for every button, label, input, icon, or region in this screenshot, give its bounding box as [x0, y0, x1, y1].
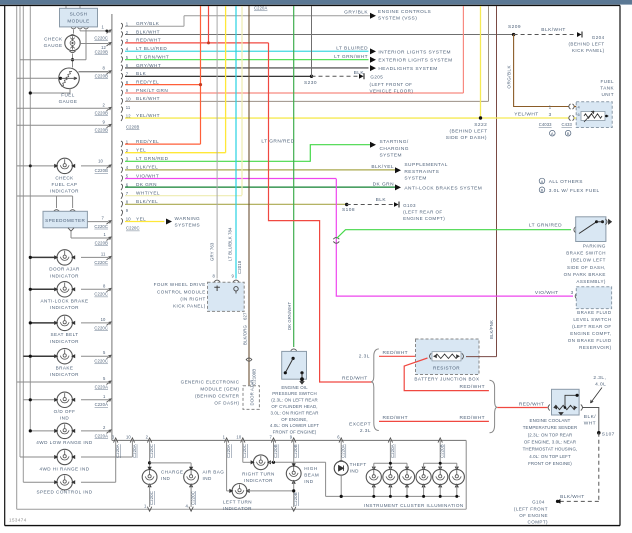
svg-text:UNIT: UNIT — [601, 92, 614, 97]
svg-text:VEHICLE FLOOR): VEHICLE FLOOR) — [370, 89, 414, 94]
svg-text:IND: IND — [161, 476, 170, 481]
svg-text:4WD LOW RANGE IND: 4WD LOW RANGE IND — [36, 440, 93, 445]
svg-text:C220A: C220A — [390, 444, 395, 458]
svg-text:10: 10 — [98, 159, 103, 164]
svg-text:10: 10 — [101, 317, 106, 322]
svg-text:C220A: C220A — [115, 444, 120, 458]
svg-text:INDICATOR: INDICATOR — [223, 506, 252, 511]
svg-text:3: 3 — [571, 290, 574, 295]
svg-text:C220B: C220B — [95, 168, 108, 173]
svg-text:WHT/YEL: WHT/YEL — [136, 191, 160, 196]
svg-text:4.0L: ON LOWER LEFT: 4.0L: ON LOWER LEFT — [270, 423, 319, 428]
svg-text:ORG/BLK: ORG/BLK — [507, 65, 512, 89]
svg-text:IND: IND — [203, 476, 212, 481]
svg-text:11: 11 — [126, 105, 131, 110]
svg-text:SPEEDOMETER: SPEEDOMETER — [45, 218, 85, 223]
svg-text:LT GRN/RED: LT GRN/RED — [261, 139, 294, 145]
svg-text:CONTROL MODULE: CONTROL MODULE — [157, 289, 206, 294]
svg-text:INSTRUMENT CLUSTER ILLUMINATIO: INSTRUMENT CLUSTER ILLUMINATION — [364, 503, 464, 508]
svg-text:153474: 153474 — [9, 518, 27, 523]
svg-text:2.3L: 2.3L — [360, 428, 371, 434]
svg-text:G104: G104 — [532, 499, 545, 504]
svg-text:LT BLU/BLK 784: LT BLU/BLK 784 — [228, 227, 233, 261]
svg-text:BLK/WHT: BLK/WHT — [560, 494, 584, 500]
svg-text:C220C: C220C — [94, 224, 108, 229]
svg-text:SYSTEM: SYSTEM — [380, 153, 402, 159]
svg-text:KICK PANEL): KICK PANEL) — [572, 48, 605, 53]
svg-text:(LEFT REAR OF: (LEFT REAR OF — [572, 324, 612, 329]
svg-text:INDICATOR: INDICATOR — [50, 273, 79, 278]
svg-text:C220B: C220B — [126, 125, 139, 130]
svg-text:CHECK: CHECK — [55, 176, 74, 181]
svg-text:C433: C433 — [562, 122, 573, 127]
svg-text:C220C: C220C — [242, 444, 247, 458]
svg-text:RED/WHT: RED/WHT — [459, 415, 485, 421]
svg-text:BLK: BLK — [376, 197, 387, 203]
svg-text:C220C: C220C — [191, 491, 196, 505]
svg-text:C220B: C220B — [95, 240, 108, 245]
svg-text:SPEED CONTROL IND: SPEED CONTROL IND — [37, 490, 93, 495]
svg-text:4WD HI RANGE IND: 4WD HI RANGE IND — [39, 467, 89, 472]
svg-text:BLK/WHT: BLK/WHT — [136, 29, 160, 34]
svg-text:RED/WHT: RED/WHT — [383, 350, 409, 356]
svg-text:BLK/WHT: BLK/WHT — [136, 96, 160, 101]
svg-text:THERMOSTAT HOUSING,: THERMOSTAT HOUSING, — [523, 447, 578, 452]
svg-text:O/D OFF: O/D OFF — [54, 409, 76, 414]
svg-text:BLK/PNK: BLK/PNK — [489, 320, 494, 339]
svg-text:4.0L: 4.0L — [595, 382, 606, 388]
svg-text:YEL/WHT: YEL/WHT — [514, 111, 538, 117]
svg-text:INDICATOR: INDICATOR — [50, 339, 79, 344]
svg-text:MODULE: MODULE — [67, 19, 89, 24]
svg-text:C220A: C220A — [95, 433, 108, 438]
svg-text:SYSTEM: SYSTEM — [404, 176, 426, 182]
svg-text:1: 1 — [549, 104, 552, 109]
svg-text:IND: IND — [350, 469, 359, 474]
svg-text:SYSTEMS: SYSTEMS — [175, 223, 201, 228]
svg-text:ANTI-LOCK BRAKE: ANTI-LOCK BRAKE — [40, 299, 88, 304]
svg-text:C220A: C220A — [226, 444, 231, 458]
svg-text:LT GRN/RED: LT GRN/RED — [136, 156, 169, 161]
svg-text:GRY 763: GRY 763 — [209, 242, 214, 261]
svg-text:ANTI-LOCK BRAKES SYSTEM: ANTI-LOCK BRAKES SYSTEM — [404, 185, 482, 191]
svg-text:BLK/YEL: BLK/YEL — [136, 199, 158, 204]
svg-text:MODULE (GEM): MODULE (GEM) — [200, 386, 239, 391]
svg-text:ASSEMBLY): ASSEMBLY) — [576, 279, 606, 284]
svg-text:(LEFT REAR OF: (LEFT REAR OF — [403, 210, 443, 215]
svg-text:WARNING: WARNING — [175, 216, 201, 221]
svg-text:RED/YEL: RED/YEL — [136, 79, 159, 84]
svg-text:GRY/BLK: GRY/BLK — [136, 21, 160, 26]
svg-text:627: 627 — [242, 312, 247, 320]
svg-text:G205: G205 — [370, 75, 383, 80]
svg-text:C2018: C2018 — [237, 260, 242, 274]
svg-text:10: 10 — [126, 435, 131, 440]
svg-text:S230: S230 — [304, 80, 317, 86]
svg-text:YEL: YEL — [136, 216, 146, 221]
svg-text:RED/WHT: RED/WHT — [342, 376, 368, 382]
svg-text:10: 10 — [126, 97, 131, 102]
svg-text:DK GRN: DK GRN — [373, 181, 394, 187]
svg-text:TEMPERATURE SENDER: TEMPERATURE SENDER — [523, 425, 578, 430]
svg-text:DK GRN: DK GRN — [136, 182, 157, 187]
svg-text:C220C: C220C — [149, 444, 154, 458]
svg-text:OF ENGINE: OF ENGINE — [519, 513, 548, 518]
svg-text:(LEFT FRONT OF: (LEFT FRONT OF — [370, 82, 413, 87]
svg-text:IND: IND — [304, 479, 313, 484]
svg-text:C220B: C220B — [95, 128, 108, 133]
svg-text:C220A: C220A — [254, 6, 267, 11]
svg-text:S209: S209 — [508, 24, 521, 30]
svg-text:HIGH: HIGH — [304, 466, 317, 471]
svg-text:DK GRN/WHT: DK GRN/WHT — [287, 301, 292, 330]
svg-text:C220B: C220B — [440, 444, 445, 458]
svg-text:TANK: TANK — [600, 85, 614, 90]
svg-text:FRONT OF ENGINE): FRONT OF ENGINE) — [273, 430, 317, 435]
svg-text:4.0L: ON TOP LEFT: 4.0L: ON TOP LEFT — [529, 454, 571, 459]
svg-text:S107: S107 — [602, 431, 615, 437]
svg-text:RED/WHT: RED/WHT — [136, 38, 161, 43]
svg-text:C220C: C220C — [94, 260, 108, 265]
svg-text:DOOR AJAR: DOOR AJAR — [250, 380, 255, 406]
svg-text:COMPT): COMPT) — [528, 520, 548, 525]
svg-text:C220B: C220B — [95, 111, 108, 116]
svg-text:BATTERY JUNCTION BOX: BATTERY JUNCTION BOX — [414, 377, 479, 382]
svg-text:INDICATOR: INDICATOR — [50, 305, 79, 310]
svg-text:(BEHIND LEFT: (BEHIND LEFT — [568, 41, 604, 46]
svg-text:(IN RIGHT: (IN RIGHT — [180, 296, 205, 301]
svg-text:C220C: C220C — [94, 36, 108, 41]
svg-text:INDICATOR: INDICATOR — [244, 478, 273, 483]
svg-text:OF ENGINE, 3.0L: NEAR: OF ENGINE, 3.0L: NEAR — [524, 440, 576, 445]
svg-text:10: 10 — [236, 435, 241, 440]
svg-text:SLOSH: SLOSH — [70, 12, 88, 17]
svg-text:CHARGING: CHARGING — [380, 146, 409, 152]
svg-text:PRESSURE SWITCH: PRESSURE SWITCH — [272, 391, 317, 396]
svg-text:FUEL: FUEL — [600, 79, 614, 84]
svg-text:C220C: C220C — [149, 491, 154, 505]
svg-text:C220B: C220B — [293, 444, 298, 458]
svg-text:RED/WHT: RED/WHT — [383, 415, 409, 421]
svg-text:KICK PANEL): KICK PANEL) — [173, 304, 206, 309]
svg-text:WHT: WHT — [584, 420, 596, 426]
svg-text:ON PARK BRAKE: ON PARK BRAKE — [564, 272, 606, 277]
svg-text:BRAKE FLUID: BRAKE FLUID — [577, 310, 612, 315]
svg-text:ENGINE COOLANT: ENGINE COOLANT — [530, 418, 571, 423]
svg-text:DOOR AJAR: DOOR AJAR — [49, 267, 80, 272]
svg-text:C4033: C4033 — [539, 122, 552, 127]
svg-text:3: 3 — [549, 112, 552, 117]
svg-text:GENERIC ELECTRONIC: GENERIC ELECTRONIC — [181, 379, 240, 384]
svg-text:3.0L: ON RIGHT REAR: 3.0L: ON RIGHT REAR — [270, 410, 318, 415]
svg-text:BRAKE SWITCH: BRAKE SWITCH — [566, 251, 606, 256]
svg-text:C220C: C220C — [94, 359, 108, 364]
svg-text:PARKING: PARKING — [583, 244, 606, 249]
svg-text:BLK/YEL: BLK/YEL — [136, 165, 158, 170]
svg-text:GRY/WHT: GRY/WHT — [136, 63, 161, 68]
svg-text:GAUGE: GAUGE — [59, 99, 78, 104]
svg-text:GAUGE: GAUGE — [44, 43, 63, 48]
svg-text:C220A: C220A — [132, 444, 137, 458]
svg-text:RESISTOR: RESISTOR — [433, 365, 460, 370]
svg-text:C220C: C220C — [94, 325, 108, 330]
svg-text:ALL OTHERS: ALL OTHERS — [549, 179, 583, 185]
svg-text:VIO/WHT: VIO/WHT — [535, 290, 559, 296]
svg-text:C220B: C220B — [273, 444, 278, 458]
svg-text:BLK: BLK — [354, 70, 365, 76]
svg-text:BLK/: BLK/ — [584, 414, 596, 420]
svg-text:(BELOW LEFT: (BELOW LEFT — [571, 258, 606, 263]
svg-text:SIDE OF DASH): SIDE OF DASH) — [446, 135, 487, 141]
svg-text:BLK: BLK — [136, 71, 147, 76]
svg-text:(BEHIND LEFT: (BEHIND LEFT — [450, 129, 488, 135]
svg-text:SYSTEM (VSS): SYSTEM (VSS) — [378, 16, 417, 22]
svg-text:G103: G103 — [403, 203, 416, 208]
svg-text:C220A: C220A — [95, 402, 108, 407]
svg-text:FUEL CAP: FUEL CAP — [52, 182, 78, 187]
svg-text:CHECK: CHECK — [44, 37, 63, 42]
svg-text:C220A: C220A — [341, 444, 346, 458]
svg-text:VIO/WHT: VIO/WHT — [136, 173, 159, 178]
svg-text:2.3L,: 2.3L, — [593, 375, 606, 381]
svg-text:A: A — [551, 131, 554, 136]
svg-text:SUPPLEMENTAL: SUPPLEMENTAL — [404, 162, 447, 168]
svg-text:C220B: C220B — [293, 492, 298, 506]
svg-text:LT GRN/WHT: LT GRN/WHT — [136, 54, 169, 59]
svg-text:BLK/YEL: BLK/YEL — [371, 164, 394, 170]
svg-text:SIDE OF DASH,: SIDE OF DASH, — [567, 265, 606, 270]
svg-text:BEAM: BEAM — [304, 473, 319, 478]
svg-text:(BEHIND CENTER: (BEHIND CENTER — [195, 394, 240, 399]
svg-text:ENGINE OIL: ENGINE OIL — [281, 385, 308, 390]
svg-text:2.3L: 2.3L — [359, 353, 370, 359]
svg-text:ON BRAKE FLUID: ON BRAKE FLUID — [568, 338, 612, 343]
svg-text:RIGHT TURN: RIGHT TURN — [242, 471, 275, 476]
svg-text:ENGINE COMPT,: ENGINE COMPT, — [570, 331, 611, 336]
svg-text:RED/WHT: RED/WHT — [519, 401, 545, 407]
svg-text:EXCEPT: EXCEPT — [349, 422, 371, 428]
svg-text:LT GRN/WHT: LT GRN/WHT — [334, 54, 368, 60]
svg-text:(LEFT FRONT: (LEFT FRONT — [514, 506, 548, 511]
svg-text:CHARGE: CHARGE — [161, 470, 183, 475]
svg-text:S108: S108 — [342, 207, 355, 213]
svg-text:RED/YEL: RED/YEL — [136, 139, 159, 144]
svg-text:LT BLU/RED: LT BLU/RED — [136, 46, 167, 51]
svg-text:C220C: C220C — [126, 226, 140, 231]
svg-text:C220A: C220A — [95, 384, 108, 389]
svg-text:BLK/ORG: BLK/ORG — [242, 325, 247, 345]
svg-text:A: A — [541, 179, 544, 184]
svg-text:INDICATOR: INDICATOR — [50, 372, 79, 377]
svg-text:YEL: YEL — [136, 148, 146, 153]
svg-text:EXTERIOR LIGHTS SYSTEM: EXTERIOR LIGHTS SYSTEM — [378, 58, 452, 64]
svg-text:LT BLU/RED: LT BLU/RED — [336, 46, 368, 52]
svg-text:INTERIOR LIGHTS SYSTEM: INTERIOR LIGHTS SYSTEM — [378, 49, 451, 55]
svg-text:RESERVOIR): RESERVOIR) — [579, 345, 611, 350]
svg-text:OF DASH): OF DASH) — [214, 401, 239, 406]
svg-text:G204: G204 — [592, 35, 605, 40]
svg-text:(2.3L: ON LEFT REAR: (2.3L: ON LEFT REAR — [271, 398, 318, 403]
svg-text:OF ENGINE,: OF ENGINE, — [281, 417, 308, 422]
svg-text:C220B: C220B — [95, 50, 108, 55]
svg-text:RESTRAINTS: RESTRAINTS — [404, 169, 439, 175]
svg-text:C220B: C220B — [95, 74, 108, 79]
svg-text:B: B — [567, 131, 570, 136]
svg-text:C220C: C220C — [94, 292, 108, 297]
svg-text:YEL/WHT: YEL/WHT — [136, 113, 160, 118]
svg-text:IND: IND — [60, 416, 69, 421]
svg-text:BRAKE: BRAKE — [56, 366, 74, 371]
svg-text:INDICATOR: INDICATOR — [50, 189, 79, 194]
svg-text:RED/WHT: RED/WHT — [459, 384, 485, 390]
svg-text:S222: S222 — [474, 122, 487, 128]
svg-text:THEFT: THEFT — [350, 462, 367, 467]
svg-text:HEADLIGHTS SYSTEM: HEADLIGHTS SYSTEM — [378, 66, 437, 72]
svg-text:(2.3L: ON TOP REAR: (2.3L: ON TOP REAR — [528, 432, 573, 437]
svg-text:STARTING/: STARTING/ — [380, 139, 409, 145]
svg-text:OF CYLINDER HEAD,: OF CYLINDER HEAD, — [271, 404, 317, 409]
svg-text:LEVEL SWITCH: LEVEL SWITCH — [573, 317, 611, 322]
svg-text:3.0L W/ FLEX FUEL: 3.0L W/ FLEX FUEL — [549, 188, 600, 194]
svg-text:ENGINE COMPT): ENGINE COMPT) — [403, 216, 445, 221]
svg-text:AIR BAG: AIR BAG — [203, 470, 225, 475]
svg-text:FRONT OF ENGINE): FRONT OF ENGINE) — [528, 461, 572, 466]
svg-text:LT GRN/RED: LT GRN/RED — [529, 223, 562, 229]
svg-text:LEFT TURN: LEFT TURN — [223, 500, 252, 505]
svg-text:GRY/BLK: GRY/BLK — [344, 10, 368, 16]
svg-text:11: 11 — [101, 251, 106, 256]
svg-text:ENGINE CONTROLS: ENGINE CONTROLS — [378, 9, 431, 15]
svg-text:FOUR WHEEL DRIVE: FOUR WHEEL DRIVE — [154, 282, 206, 287]
svg-text:SEAT BELT: SEAT BELT — [50, 332, 78, 337]
svg-text:B: B — [541, 188, 544, 193]
svg-text:PNK/LT GRN: PNK/LT GRN — [136, 88, 168, 93]
svg-text:BLK/WHT: BLK/WHT — [541, 27, 565, 33]
